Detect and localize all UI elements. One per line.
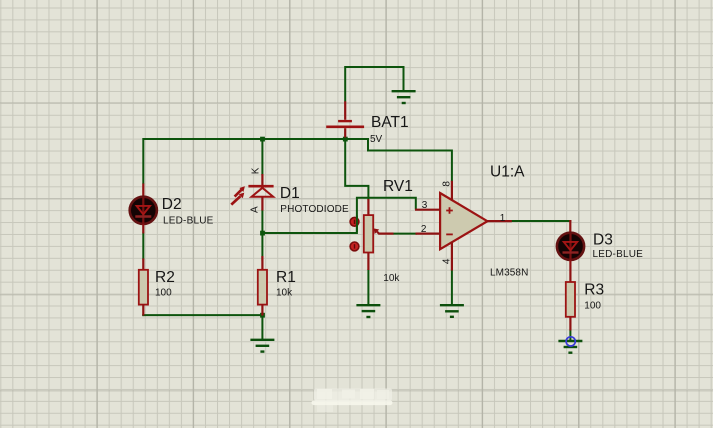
- svg-text:100: 100: [155, 288, 172, 299]
- pin 4 stub: [451, 242, 453, 271]
- wire: D2 to R2: [142, 233, 144, 260]
- svg-text:A: A: [250, 206, 261, 213]
- terminal marker top: [350, 217, 359, 226]
- svg-text:LM358N: LM358N: [490, 268, 528, 279]
- svg-text:BAT1: BAT1: [371, 114, 409, 131]
- node: battery junction dot: [343, 137, 348, 142]
- battery BAT1: [326, 101, 364, 137]
- svg-text:R1: R1: [276, 269, 296, 286]
- wire: D2 column top: [142, 138, 144, 184]
- svg-text:D3: D3: [593, 231, 613, 248]
- wire: battery top lead: [345, 67, 403, 102]
- ground (battery top): [392, 91, 416, 103]
- resistor R3: [566, 282, 575, 331]
- pin 2 stub: [416, 233, 441, 235]
- wire: pot bottom to ground: [367, 269, 369, 305]
- svg-text:PHOTODIODE: PHOTODIODE: [280, 204, 349, 215]
- svg-text:LED-BLUE: LED-BLUE: [593, 249, 644, 260]
- wire: R2 bottom stub: [142, 314, 144, 316]
- wire: opamp output to D3: [511, 221, 571, 222]
- blue marker at D3 ground: [566, 337, 575, 346]
- pin 8 stub: [451, 181, 453, 201]
- svg-text:U1:A: U1:A: [490, 164, 525, 181]
- minus: [446, 233, 453, 235]
- wire: R1 bottom to ground: [261, 315, 263, 339]
- pin 3 stub: [415, 209, 440, 211]
- ground (RV1): [356, 305, 380, 317]
- wire: R2-R1 bottom rail: [142, 314, 262, 316]
- wire: battery junction to pot route: [345, 139, 368, 200]
- svg-text:8: 8: [442, 181, 453, 187]
- wire: battery junction to opamp pin8: [345, 139, 452, 182]
- svg-text:R2: R2: [155, 269, 175, 286]
- svg-text:100: 100: [584, 301, 601, 312]
- ground (op-amp pin4): [440, 305, 464, 317]
- svg-text:K: K: [251, 167, 262, 174]
- node: D1 top junction dot: [260, 137, 265, 142]
- svg-text:3: 3: [422, 200, 428, 211]
- svg-text:10k: 10k: [383, 273, 400, 284]
- svg-text:R3: R3: [584, 281, 604, 298]
- wiper arrow: [377, 232, 394, 234]
- svg-text:2: 2: [421, 224, 427, 235]
- svg-text:D2: D2: [162, 196, 182, 213]
- svg-text:10k: 10k: [276, 288, 293, 299]
- svg-text:RV1: RV1: [383, 178, 413, 195]
- ground (R1): [250, 340, 274, 352]
- op-amp U1:A: [415, 181, 512, 271]
- svg-text:1: 1: [500, 213, 506, 224]
- wire: D1 anode to junction: [261, 210, 263, 234]
- svg-text:4: 4: [442, 258, 453, 264]
- svg-text:LED-BLUE: LED-BLUE: [163, 216, 214, 227]
- ground (D3/R3): [558, 341, 582, 353]
- wire: D1 junction down to R1: [261, 233, 263, 261]
- wire: photodiode node to pin3: [262, 198, 415, 233]
- wire: pot wiper to pin2: [393, 233, 417, 235]
- potentiometer RV1: [350, 199, 393, 270]
- terminal marker bottom: [350, 242, 359, 251]
- light arrows: [235, 190, 242, 197]
- svg-text:5V: 5V: [370, 134, 383, 145]
- node: R1 bottom junction dot: [260, 313, 265, 318]
- wire: top rail D2 to battery junction: [143, 138, 345, 140]
- plus: [446, 207, 453, 214]
- LED D2: [130, 184, 157, 234]
- wire: opamp pin4 to ground: [451, 270, 453, 305]
- wire: D3/R3 to ground: [569, 330, 571, 341]
- watermark: [312, 389, 393, 413]
- LED D3: [557, 220, 584, 282]
- output stub: [487, 220, 512, 222]
- svg-text:D1: D1: [280, 185, 300, 202]
- wire: D1 column top: [261, 138, 263, 175]
- resistor R2: [139, 259, 148, 316]
- node: D1 anode junction dot: [260, 231, 265, 236]
- resistor R1: [258, 256, 267, 316]
- photodiode D1: [231, 174, 273, 211]
